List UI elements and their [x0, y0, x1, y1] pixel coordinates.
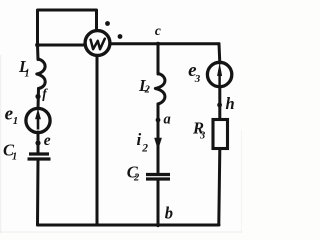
svg-text:3: 3 — [199, 131, 205, 142]
svg-text:h: h — [226, 94, 235, 113]
svg-text:2: 2 — [144, 85, 151, 96]
svg-text:i: i — [137, 130, 142, 149]
svg-text:b: b — [165, 204, 173, 223]
svg-text:c: c — [155, 23, 161, 38]
svg-text:e: e — [44, 132, 51, 149]
svg-text:3: 3 — [194, 73, 201, 85]
svg-text:1: 1 — [13, 115, 19, 127]
svg-text:1: 1 — [25, 69, 30, 80]
svg-text:2: 2 — [133, 172, 140, 183]
svg-text:a: a — [164, 112, 171, 128]
svg-text:1: 1 — [12, 152, 17, 163]
svg-text:2: 2 — [141, 143, 148, 155]
